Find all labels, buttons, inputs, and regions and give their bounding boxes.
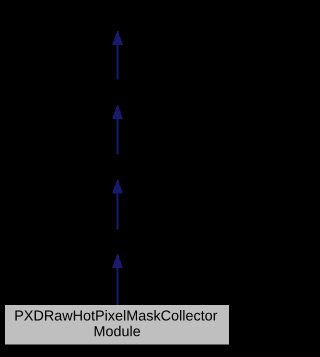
arrow 4 (inheritance, pointing up)	[112, 254, 122, 306]
arrow 2 (inheritance, pointing up)	[112, 105, 122, 155]
arrow 3 (inheritance, pointing up)	[112, 180, 122, 230]
node label line 1: PXDRawHotPixelMaskCollector	[15, 310, 217, 321]
node label line 2: Module	[95, 326, 140, 337]
node box PXDRawHotPixelMaskCollectorModule	[5, 305, 229, 345]
arrow 1 (inheritance, pointing up)	[112, 31, 122, 80]
